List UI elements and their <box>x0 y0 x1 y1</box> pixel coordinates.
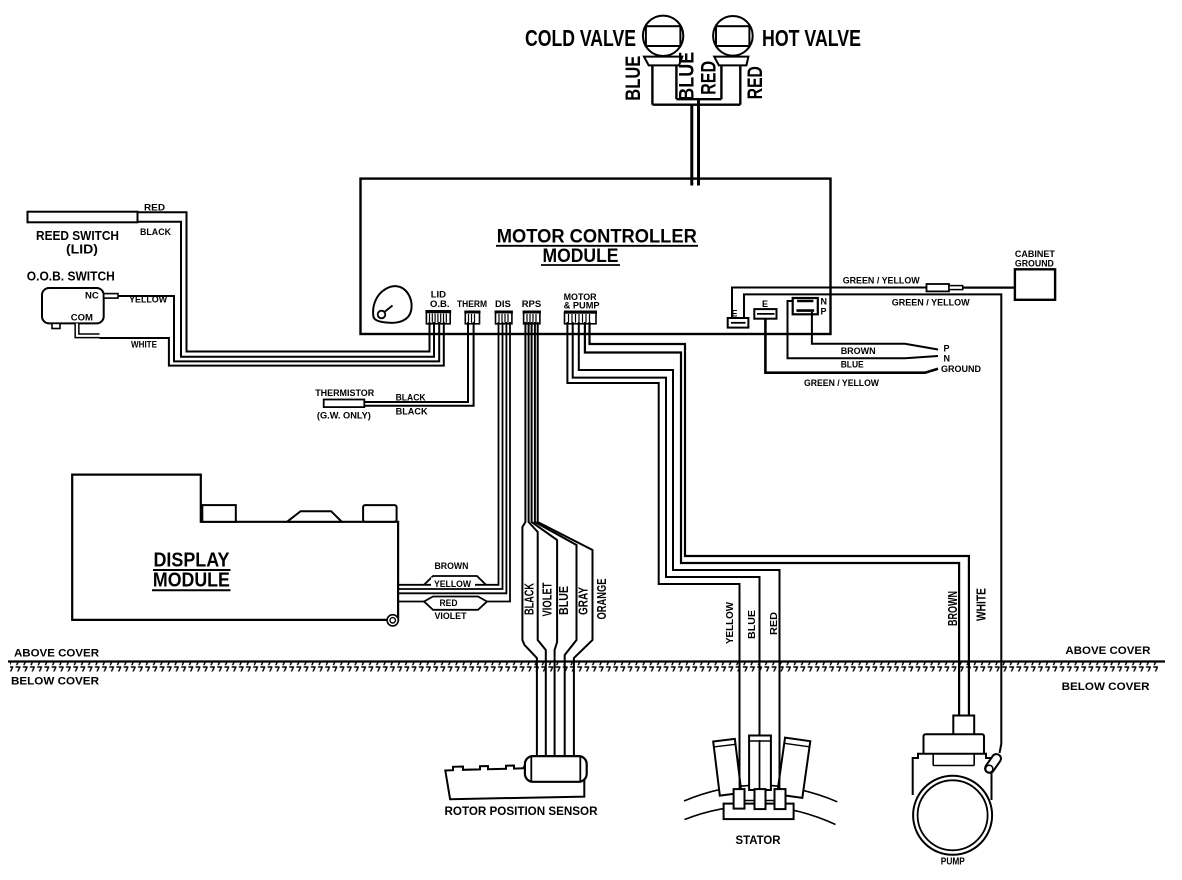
svg-text:COLD VALVE: COLD VALVE <box>525 25 636 51</box>
wire yellow display-DIS <box>398 322 502 589</box>
rotor position sensor connector <box>525 756 587 782</box>
svg-text:RED: RED <box>440 598 458 609</box>
svg-text:GREEN / YELLOW: GREEN / YELLOW <box>892 298 971 308</box>
connector MOTOR & PUMP <box>564 292 601 324</box>
svg-text:VIOLET: VIOLET <box>435 611 467 622</box>
wire rps orange <box>538 322 593 757</box>
connector RPS <box>522 299 542 324</box>
connector E2 <box>754 299 776 319</box>
wire hot valve right (red) <box>739 65 741 104</box>
svg-text:BELOW COVER: BELOW COVER <box>1062 681 1150 693</box>
svg-text:NC: NC <box>85 291 99 302</box>
stator center bobbin <box>749 736 771 791</box>
svg-text:BLACK: BLACK <box>396 392 426 403</box>
svg-text:BROWN: BROWN <box>945 591 960 626</box>
reed switch (lid) bar <box>28 212 138 223</box>
svg-text:P: P <box>821 307 827 317</box>
svg-text:BLUE: BLUE <box>676 52 699 101</box>
wire rps violet <box>529 322 546 757</box>
svg-text:P: P <box>944 344 950 354</box>
cold valve body <box>643 16 683 66</box>
inline splice connector <box>927 284 950 291</box>
o.o.b. switch foot <box>52 323 60 328</box>
svg-text:BROWN: BROWN <box>841 346 876 356</box>
svg-text:GRAY: GRAY <box>577 586 591 615</box>
pump volute circles <box>913 776 992 855</box>
svg-text:REED SWITCH: REED SWITCH <box>36 229 119 243</box>
svg-text:& PUMP: & PUMP <box>564 301 601 312</box>
wire violet display-DIS <box>398 322 510 602</box>
svg-text:ROTOR POSITION SENSOR: ROTOR POSITION SENSOR <box>445 804 598 818</box>
bump rect 2 <box>363 505 397 522</box>
svg-text:DIS: DIS <box>495 299 511 310</box>
svg-text:RED: RED <box>744 66 767 99</box>
svg-text:THERMISTOR: THERMISTOR <box>315 388 374 399</box>
svg-text:YELLOW: YELLOW <box>129 295 167 306</box>
connector E1 <box>728 309 749 328</box>
svg-text:HOT VALVE: HOT VALVE <box>762 25 861 51</box>
wire green/yellow E2 to ground terminal <box>765 319 938 373</box>
svg-text:GREEN / YELLOW: GREEN / YELLOW <box>804 378 879 388</box>
wire motor&pump pin3 red to stator <box>579 322 780 790</box>
svg-text:E: E <box>762 299 768 309</box>
svg-text:ORANGE: ORANGE <box>595 579 609 620</box>
buzzer blob symbol <box>373 286 412 323</box>
NC terminal tab <box>104 294 118 299</box>
red banner hexagon <box>424 597 487 610</box>
svg-text:YELLOW: YELLOW <box>434 579 471 590</box>
wire green/yellow E1 to cabinet ground <box>732 288 927 319</box>
wire black (reed to lid ob pin2) <box>138 222 435 357</box>
wire black (therm pin2) <box>364 322 473 406</box>
pump connector <box>953 716 974 735</box>
yellow banner hump <box>424 576 486 585</box>
COM terminal tube <box>77 323 100 335</box>
svg-text:COM: COM <box>71 313 93 324</box>
stator base <box>724 804 794 820</box>
wire red (reed to lid ob pin1) <box>138 212 430 351</box>
wire rps black <box>522 322 537 757</box>
stator terminals <box>734 789 745 809</box>
bump rect 1 <box>202 505 236 522</box>
svg-text:BLUE: BLUE <box>841 359 864 369</box>
svg-text:BLUE: BLUE <box>557 586 571 615</box>
cover line <box>8 660 1165 662</box>
svg-text:(LID): (LID) <box>66 243 98 257</box>
display module outline <box>72 475 398 620</box>
thermistor bar <box>324 400 365 408</box>
svg-text:MODULE: MODULE <box>543 246 619 267</box>
svg-text:BLUE: BLUE <box>622 56 645 101</box>
wire horizontal joining outer pair <box>652 103 740 105</box>
svg-text:BROWN: BROWN <box>435 561 469 572</box>
stator wire segments over bobbins <box>739 745 741 790</box>
wire motor&pump pin5 white to pump <box>590 322 969 716</box>
bump trapezoid <box>287 511 342 522</box>
svg-text:RED: RED <box>144 203 165 214</box>
connector THERM <box>457 299 487 324</box>
svg-text:YELLOW: YELLOW <box>724 602 736 644</box>
wire horizontal joining inner pair <box>676 98 721 100</box>
svg-text:WHITE: WHITE <box>974 588 989 621</box>
svg-text:ABOVE COVER: ABOVE COVER <box>14 648 99 660</box>
svg-text:MOTOR CONTROLLER: MOTOR CONTROLLER <box>497 227 697 248</box>
stator right bobbin <box>777 738 810 798</box>
svg-text:O.O.B. SWITCH: O.O.B. SWITCH <box>27 270 115 284</box>
svg-text:RED: RED <box>698 61 721 95</box>
svg-text:(G.W. ONLY): (G.W. ONLY) <box>317 411 371 422</box>
svg-text:WHITE: WHITE <box>131 340 157 351</box>
svg-text:ABOVE COVER: ABOVE COVER <box>1065 645 1150 657</box>
o.o.b. switch body <box>42 288 104 323</box>
motor controller module box <box>361 179 831 334</box>
wire blue to N terminal <box>788 301 939 358</box>
wire hot valve left (red) <box>720 65 722 99</box>
wire bundle down to module right <box>697 99 700 185</box>
pump housing <box>913 754 992 800</box>
svg-text:BLACK: BLACK <box>523 583 537 615</box>
rotor position sensor body <box>445 766 584 800</box>
terminal link lines <box>745 800 755 802</box>
wire brown display-DIS <box>398 322 498 585</box>
svg-text:N: N <box>821 297 828 307</box>
wire motor&pump pin2 blue to stator <box>573 322 760 790</box>
wire rps gray <box>535 322 577 757</box>
hot valve body <box>713 16 753 65</box>
svg-text:BELOW COVER: BELOW COVER <box>11 676 99 688</box>
connector LID O.B. <box>425 290 451 324</box>
svg-text:MODULE: MODULE <box>153 569 230 592</box>
svg-text:BLACK: BLACK <box>396 407 428 418</box>
svg-text:N: N <box>944 354 951 364</box>
svg-text:RED: RED <box>768 612 780 635</box>
wire brown to P terminal <box>812 312 938 350</box>
wire yellow (NC to lid ob pin3) <box>118 296 439 361</box>
pump ground clamp <box>983 752 1002 774</box>
stator left bobbin <box>713 739 741 796</box>
wire motor&pump pin4 brown to pump <box>585 322 959 716</box>
connector DIS <box>495 299 513 324</box>
svg-text:GROUND: GROUND <box>941 364 981 374</box>
connector N/P <box>793 297 827 317</box>
stator rim arcs <box>684 785 837 802</box>
svg-text:PUMP: PUMP <box>941 856 965 868</box>
wire rps blue <box>532 322 558 757</box>
svg-text:RPS: RPS <box>522 299 542 310</box>
svg-text:GREEN / YELLOW: GREEN / YELLOW <box>843 276 920 286</box>
svg-text:VIOLET: VIOLET <box>541 582 555 616</box>
svg-text:BLACK: BLACK <box>140 227 171 238</box>
wire cold valve left (blue) <box>651 65 653 104</box>
pump top body <box>924 734 985 755</box>
svg-text:BLUE: BLUE <box>746 610 758 639</box>
wire bundle down to module left <box>690 105 693 186</box>
wire green/yellow E1 to pump clamp <box>744 294 1001 753</box>
wire motor&pump pin1 yellow to stator <box>567 322 739 790</box>
wire cold valve right (blue) <box>675 65 677 99</box>
cabinet ground box <box>1015 269 1055 300</box>
wire red display-DIS <box>398 322 506 593</box>
svg-text:GROUND: GROUND <box>1015 259 1054 270</box>
svg-text:THERM: THERM <box>457 299 487 310</box>
grommet at bottom right corner <box>387 615 398 626</box>
svg-text:O.B.: O.B. <box>430 299 450 310</box>
svg-text:STATOR: STATOR <box>736 833 781 847</box>
wire black (therm pin1) <box>364 322 468 402</box>
wire white (COM to lid ob pin4) <box>100 322 444 366</box>
